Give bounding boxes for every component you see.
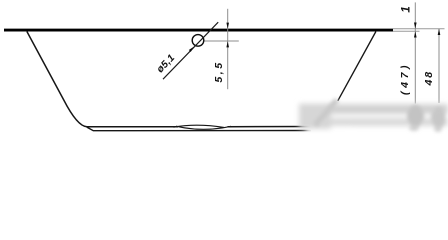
leader arrowhead at circle [189,46,195,52]
blurred right-wall remnant [315,100,445,132]
dim 1 lower arrow / (47) top arrow (up) [414,31,417,37]
rim flange (thick top line) [4,29,393,32]
right wall [338,32,376,101]
leader line for o5,1 [163,22,218,79]
svg-text:48: 48 [423,70,435,86]
dimension 5,5 vertical line [227,9,229,89]
hole circle o5,1 [192,35,204,47]
base support ramp + base line B [87,127,311,131]
drain recess lens upper arc [174,125,225,127]
svg-text:5,5: 5,5 [213,60,225,82]
dimension 5,5 horizontal line from circle [205,40,239,42]
rim top extension line (right) [393,28,445,30]
drain recess lens lower arc [176,126,231,129]
rim bottom extension line (right) [393,30,420,32]
dim 48 top arrow (up) [438,29,441,35]
svg-text:1: 1 [401,6,413,12]
svg-text:(47): (47) [399,62,411,95]
dim 1 upper arrow (down) [414,23,417,29]
left wall + bottom curve + bottom line A [27,32,313,127]
5,5 upper arrow (down) [226,23,229,29]
dimension line for 1 and (47) [414,2,416,103]
blurred watermark smudge bottom-right [299,104,448,136]
dimension line for 48 [438,29,440,103]
5,5 lower arrow (up) [226,41,229,47]
